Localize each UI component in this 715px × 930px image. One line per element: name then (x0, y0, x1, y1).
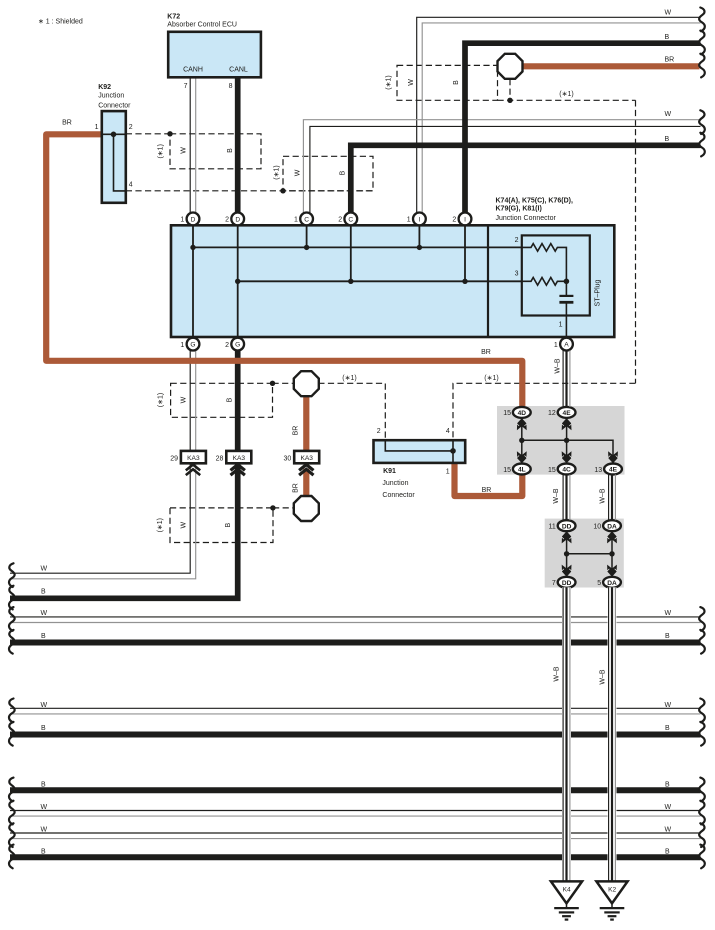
svg-text:W: W (41, 610, 48, 617)
svg-text:BR: BR (293, 426, 300, 436)
ground K4 (551, 881, 582, 919)
svg-text:W: W (295, 169, 302, 176)
pin 2I (459, 213, 472, 226)
svg-text:1: 1 (446, 468, 450, 475)
svg-text:B: B (225, 523, 232, 528)
wire W-B from terminal 13 4E to terminal 10 DA (609, 475, 616, 521)
svg-text:2: 2 (377, 428, 381, 435)
svg-text:K4: K4 (563, 886, 571, 893)
svg-text:Junction Connector: Junction Connector (496, 215, 557, 222)
svg-text:Absorber Control ECU: Absorber Control ECU (167, 22, 237, 29)
capacitor (565, 281, 567, 295)
svg-text:W: W (665, 610, 672, 617)
relay block gray box 2 (545, 519, 624, 588)
svg-text:15: 15 (548, 467, 556, 474)
svg-text:G: G (190, 342, 195, 349)
svg-text:DD: DD (562, 523, 572, 530)
svg-text:1: 1 (559, 322, 563, 329)
svg-text:4L: 4L (518, 467, 526, 474)
wire B from junction 2G down and left to edge (10, 350, 238, 598)
svg-text:B: B (41, 725, 46, 732)
shield box E around W/B wires lower (170, 508, 273, 543)
junction connector K91 (374, 428, 466, 499)
wire B from top right to junction 2I (465, 43, 701, 212)
svg-text:K91: K91 (383, 468, 396, 475)
svg-text:W–B: W–B (600, 669, 607, 685)
svg-text:K79(G), K81(I): K79(G), K81(I) (496, 206, 542, 213)
svg-text:Connector: Connector (98, 102, 131, 109)
svg-text:B: B (665, 782, 670, 789)
wire B from right to junction 2C (351, 145, 701, 212)
shield box A around CANH/CANL wires (170, 134, 261, 169)
shield wire from K92 pin 4 (126, 190, 373, 192)
connector 28 KA3 (216, 451, 252, 475)
svg-text:W: W (41, 702, 48, 709)
wire W from right to junction 1C (303, 120, 700, 213)
shield wire octagon3 drain stem (509, 79, 511, 100)
wire W from junction 1G down and left to edge (10, 350, 196, 578)
svg-text:(∗1): (∗1) (386, 75, 393, 89)
junction dot shield box D (270, 381, 275, 386)
svg-text:ST–Plug: ST–Plug (595, 279, 602, 306)
svg-text:B: B (41, 849, 46, 856)
svg-text:KA3: KA3 (187, 455, 200, 462)
svg-text:7: 7 (552, 580, 556, 587)
wire W bus 1 (10, 617, 701, 623)
svg-text:29: 29 (170, 455, 178, 462)
wire B bus 4 (10, 854, 701, 860)
terminal 12 4E (558, 407, 576, 418)
svg-text:1: 1 (95, 124, 99, 131)
wire W-B from terminal 4C to terminal 11 DD (563, 475, 570, 521)
svg-text:4E: 4E (609, 467, 618, 474)
svg-text:KA3: KA3 (300, 455, 313, 462)
node dots on internal buses (190, 245, 195, 250)
svg-text:K92: K92 (98, 84, 111, 91)
svg-text:15: 15 (503, 410, 511, 417)
svg-text:W: W (181, 522, 188, 529)
svg-text:4: 4 (446, 428, 450, 435)
svg-text:DA: DA (607, 580, 617, 587)
svg-text:B: B (227, 148, 234, 153)
shield box B around 1C/2C wires (283, 156, 373, 191)
pin 1D (187, 213, 200, 226)
pin 2C (344, 213, 357, 226)
svg-text:(∗1): (∗1) (157, 393, 164, 407)
svg-text:W–B: W–B (554, 358, 561, 374)
octagon shield connector 1 (294, 371, 319, 396)
resistor R upper (522, 244, 567, 282)
connector 29 KA3 (170, 451, 206, 475)
svg-text:B: B (41, 633, 46, 640)
terminal 13 4E (604, 464, 622, 475)
node dot (564, 279, 570, 285)
junction dot shield box B (280, 188, 285, 193)
svg-text:DA: DA (607, 523, 617, 530)
svg-text:12: 12 (548, 410, 556, 417)
svg-text:(∗1): (∗1) (342, 375, 356, 382)
svg-text:W: W (665, 826, 672, 833)
junction connector K92 (95, 84, 133, 203)
wire B bus 2 (10, 732, 701, 738)
svg-text:BR: BR (481, 349, 491, 356)
svg-text:B: B (453, 80, 460, 85)
wire W-B from terminal 7 DD to ground K4 (562, 587, 571, 881)
svg-text:4C: 4C (562, 467, 571, 474)
wire break symbols left edge (9, 563, 15, 868)
svg-text:I: I (464, 216, 466, 223)
svg-text:B: B (41, 588, 46, 595)
shield wire box E to octagon2 (273, 507, 295, 509)
down arrow 4E right (608, 451, 618, 463)
svg-text:11: 11 (549, 524, 556, 531)
svg-text:B: B (665, 633, 670, 640)
svg-text:K74(A), K75(C), K76(D),: K74(A), K75(C), K76(D), (496, 197, 573, 204)
svg-text:(∗1): (∗1) (274, 165, 281, 179)
svg-text:(∗1): (∗1) (158, 144, 165, 158)
svg-text:2: 2 (225, 342, 229, 349)
svg-text:2: 2 (515, 237, 519, 244)
up arrow DD (562, 531, 572, 543)
wire W bus 4 (10, 833, 701, 839)
svg-text:∗ 1 : Shielded: ∗ 1 : Shielded (38, 19, 83, 26)
svg-text:C: C (348, 216, 353, 223)
svg-text:4E: 4E (563, 410, 572, 417)
shield box C around 1I/2I wires (397, 65, 498, 100)
svg-text:15: 15 (503, 467, 511, 474)
up arrow 4E (562, 418, 572, 430)
wire W bus 3 (10, 811, 701, 817)
svg-text:1: 1 (180, 217, 184, 224)
svg-text:(∗1): (∗1) (157, 518, 164, 532)
svg-text:1: 1 (180, 342, 184, 349)
wire BR from connector 4L to K91 pin 1 (455, 463, 523, 497)
svg-text:W: W (41, 804, 48, 811)
svg-text:B: B (665, 34, 670, 41)
octagon shield connector 2 (294, 496, 319, 521)
wire W from top right to junction 1I (417, 17, 701, 212)
svg-text:10: 10 (593, 524, 601, 531)
wire to pin 1A (565, 304, 567, 339)
pin 2G (231, 338, 244, 351)
terminal 5 DA (603, 577, 621, 588)
svg-text:4D: 4D (518, 410, 527, 417)
svg-text:1: 1 (294, 217, 298, 224)
svg-text:A: A (564, 342, 569, 349)
svg-text:BR: BR (293, 483, 300, 493)
shield wire octagon1 to K91 pin 2 (318, 383, 385, 440)
svg-text:DD: DD (562, 580, 572, 587)
svg-text:W: W (665, 702, 672, 709)
wire BR from right edge to octagon3 (523, 63, 700, 69)
svg-text:2: 2 (452, 217, 456, 224)
svg-text:2: 2 (129, 124, 133, 131)
svg-text:W: W (41, 565, 48, 572)
svg-text:W: W (665, 804, 672, 811)
svg-text:CANL: CANL (229, 66, 248, 73)
svg-text:5: 5 (597, 580, 601, 587)
wire BR from K92 pin 1 down and across to connector 4D (46, 134, 522, 407)
shield wire from K92 pin 2 (126, 133, 170, 135)
up arrow 4D (517, 418, 527, 430)
svg-text:8: 8 (229, 83, 233, 90)
wire W bus 2 (10, 708, 701, 714)
svg-text:W–B: W–B (554, 666, 561, 682)
svg-text:13: 13 (594, 467, 602, 474)
svg-text:W–B: W–B (599, 488, 606, 504)
ground K2 (596, 881, 627, 919)
pin 1C (300, 213, 313, 226)
svg-text:2: 2 (338, 217, 342, 224)
wire W-B from terminal 5 DA to ground K2 (608, 587, 617, 881)
internal CAN-L bus (238, 280, 522, 282)
svg-text:4: 4 (129, 181, 133, 188)
wire B bus 1 (10, 640, 701, 646)
pin circles on main junction box (187, 213, 573, 351)
svg-text:BR: BR (482, 487, 492, 494)
shield dashed network (126, 65, 636, 542)
up arrow DA (607, 531, 617, 543)
down arrow DD (562, 565, 572, 577)
svg-text:2: 2 (225, 217, 229, 224)
wire B bus 3 (10, 787, 701, 793)
svg-text:1: 1 (407, 217, 411, 224)
svg-text:B: B (665, 849, 670, 856)
internal CAN-H bus (193, 246, 522, 248)
terminal 11 DD (558, 520, 576, 531)
pin 1I (413, 213, 426, 226)
svg-text:W: W (665, 111, 672, 118)
svg-text:K2: K2 (608, 886, 616, 893)
svg-text:W: W (181, 147, 188, 154)
connector 30 KA3 (284, 451, 320, 475)
svg-text:D: D (191, 216, 196, 223)
pin 2D (231, 213, 244, 226)
svg-text:CANH: CANH (183, 66, 203, 73)
svg-text:B: B (665, 136, 670, 143)
wire break symbols right edge (699, 8, 705, 869)
svg-text:BR: BR (665, 56, 675, 63)
junction connector K74/K75/K76/K79/K81 main box (171, 197, 614, 337)
wire W-B from pin 1A to terminal 12 4E (563, 351, 570, 407)
svg-text:W–B: W–B (553, 488, 560, 504)
svg-text:BR: BR (62, 120, 72, 127)
svg-text:3: 3 (515, 270, 519, 277)
svg-text:30: 30 (284, 455, 292, 462)
junction dot shield box E (270, 505, 275, 510)
down arrow DA (607, 565, 617, 577)
internal pin stubs (193, 225, 465, 337)
svg-text:B: B (340, 170, 347, 175)
svg-text:W: W (408, 79, 415, 86)
terminal 7 DD (558, 577, 576, 588)
down arrow 4C (562, 451, 572, 463)
pin 1A (560, 338, 573, 351)
ECU K72 box (167, 14, 261, 90)
wire W CANH from K72 pin 7 to junction 1D (190, 77, 196, 212)
svg-text:(∗1): (∗1) (484, 375, 498, 382)
svg-text:B: B (226, 397, 233, 402)
svg-text:B: B (665, 725, 670, 732)
octagon shield connector top right (498, 54, 523, 79)
pin 1G (187, 338, 200, 351)
shield wire box C to right dashed vertical (498, 99, 636, 101)
wire B CANL from K72 pin 8 to junction 2D (235, 77, 241, 212)
svg-text:1: 1 (554, 342, 558, 349)
internal divider (487, 225, 489, 337)
svg-text:Connector: Connector (382, 492, 415, 499)
svg-text:C: C (304, 216, 309, 223)
terminal 15 4C (558, 464, 576, 475)
svg-text:W: W (41, 826, 48, 833)
terminal 15 4D (513, 407, 531, 418)
down arrow 4L (517, 451, 527, 463)
svg-text:G: G (235, 342, 240, 349)
svg-text:KA3: KA3 (233, 455, 246, 462)
svg-text:28: 28 (216, 455, 224, 462)
svg-text:W: W (665, 9, 672, 16)
terminal 15 4L (513, 464, 531, 475)
svg-text:B: B (41, 782, 46, 789)
svg-text:Junction: Junction (382, 480, 408, 487)
shield dashed vertical right side (635, 100, 637, 383)
junction dot K92 shield (167, 131, 172, 136)
shield box D around W/B wires below 1G/2G (171, 383, 273, 417)
svg-text:Junction: Junction (98, 93, 124, 100)
svg-text:7: 7 (184, 83, 188, 90)
junction dot shield octagon3 (507, 98, 512, 103)
svg-text:I: I (418, 216, 420, 223)
svg-text:W: W (181, 396, 188, 403)
shield wire box D to octagon1 (273, 382, 295, 384)
wire BR connector 30 KA3 to octagon2 (303, 469, 309, 497)
wire BR octagon1 to connector 30 KA3 (303, 394, 309, 452)
terminal 10 DA (603, 520, 621, 531)
ST-Plug sub-circuit (515, 235, 602, 338)
shield dashed horizontal right to K91 pin 4 (453, 383, 636, 440)
relay block gray box 1 (497, 406, 625, 475)
svg-text:K72: K72 (167, 14, 180, 21)
svg-text:D: D (235, 216, 240, 223)
resistor R lower (522, 278, 567, 286)
svg-text:(∗1): (∗1) (559, 91, 573, 98)
